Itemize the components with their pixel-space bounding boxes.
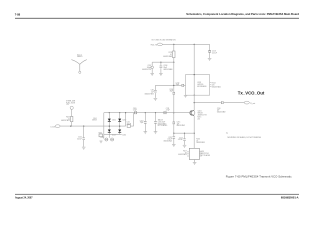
svg-text:0.01uF: 0.01uF (212, 53, 217, 55)
capacitor C210 (176, 82, 186, 86)
svg-text:L201: L201 (127, 122, 131, 124)
svg-text:C216: C216 (217, 108, 221, 110)
capacitor C202 (77, 126, 85, 147)
svg-text:D201: D201 (112, 119, 116, 121)
connector LOCK (51, 125, 61, 129)
ground (154, 98, 158, 100)
svg-text:33pF: 33pF (170, 91, 174, 93)
capacitor C216 (217, 101, 226, 113)
svg-text:Tx_VCO_Out: Tx_VCO_Out (238, 91, 265, 96)
ground (150, 74, 154, 76)
capacitor C214 (178, 133, 186, 145)
ground (154, 132, 158, 134)
capacitor C215 series (173, 122, 186, 128)
wire feedback lower (173, 124, 175, 133)
svg-text:C208: C208 (163, 65, 167, 67)
capacitor C204 (140, 113, 147, 132)
svg-text:220: 220 (212, 84, 215, 86)
junction (173, 85, 174, 86)
svg-text:0662057B74: 0662057B74 (145, 93, 154, 95)
shield box (186, 75, 210, 96)
svg-text:33pF: 33pF (163, 67, 167, 69)
wire to connector (224, 102, 244, 104)
svg-text:1K: 1K (196, 140, 198, 142)
svg-text:33pF: 33pF (176, 84, 180, 86)
wire IC ground (193, 160, 195, 163)
capacitor C213 (208, 44, 217, 58)
wire bypass row (152, 61, 174, 63)
junction (173, 133, 174, 134)
junction (70, 126, 71, 127)
svg-text:D203: D203 (112, 135, 116, 137)
junction (194, 102, 195, 103)
svg-text:C212: C212 (168, 137, 172, 139)
svg-text:1uF: 1uF (151, 91, 154, 93)
junction (173, 44, 174, 45)
wire output (194, 102, 221, 104)
junction (173, 62, 174, 63)
svg-text:D204: D204 (122, 135, 126, 137)
ground (184, 95, 187, 97)
svg-text:C206 27pF: C206 27pF (158, 122, 166, 124)
svg-text:August 24, 2007: August 24, 2007 (15, 197, 33, 200)
inductor L201 (127, 113, 134, 128)
IC U201 (178, 148, 211, 159)
ground (193, 163, 197, 165)
svg-text:STEER_LINE: STEER_LINE (66, 101, 75, 103)
junction (173, 112, 174, 113)
resistor R214 label (212, 82, 221, 88)
junction (194, 44, 195, 45)
junction (119, 112, 120, 113)
svg-text:+5V: +5V (66, 104, 69, 106)
svg-text:R214: R214 (212, 82, 216, 84)
connector TX_OUT (244, 101, 255, 105)
svg-text:5485727L01: 5485727L01 (201, 153, 210, 155)
wire collector to output (193, 95, 195, 110)
junction (109, 126, 110, 127)
pin stubs (210, 83, 212, 87)
svg-text:SHIELD: SHIELD (77, 56, 83, 58)
capacitor C212 (163, 133, 175, 144)
svg-text:0662057C01: 0662057C01 (142, 69, 151, 71)
middle rail wire (60, 125, 126, 127)
wire varactor left drop (103, 113, 105, 139)
junction (194, 133, 195, 134)
svg-text:51: 51 (68, 118, 70, 120)
svg-text:R215: R215 (197, 116, 201, 118)
junction (145, 112, 146, 113)
svg-text:D201: D201 (93, 118, 97, 120)
capacitor C211 series (164, 108, 170, 114)
wire resonator drop (125, 113, 127, 126)
svg-text:Schematics, Component Location: Schematics, Component Location Diagrams,… (186, 12, 299, 16)
svg-text:M9643: M9643 (198, 113, 203, 115)
svg-text:C209: C209 (169, 89, 173, 91)
junction (83, 126, 84, 127)
svg-text:L202: L202 (100, 137, 103, 139)
junction (160, 62, 161, 63)
svg-text:MV209: MV209 (92, 120, 97, 122)
resistor R203 (61, 116, 73, 126)
svg-text:C215: C215 (177, 122, 181, 124)
svg-text:1K: 1K (185, 152, 187, 154)
svg-text:220nH: 220nH (127, 124, 131, 126)
varactor D202 (118, 113, 126, 126)
wire collector feed (193, 44, 195, 95)
base rail wire (104, 112, 190, 114)
varactor D204 (118, 126, 126, 137)
junction (125, 112, 126, 113)
junction (155, 112, 156, 113)
net 9V3_TX (151, 39, 176, 47)
connector STEER_LINE (66, 101, 75, 117)
svg-text:U201: U201 (201, 151, 205, 153)
svg-text:C210: C210 (176, 82, 180, 84)
wire R211 to C210 node (173, 62, 175, 92)
ground (183, 145, 187, 147)
svg-text:C214: C214 (179, 137, 183, 139)
junction (194, 74, 195, 75)
svg-text:C209: C209 (133, 108, 137, 110)
svg-text:0.01uF: 0.01uF (167, 139, 172, 141)
svg-text:Figure 7-60 PML/F4E3S4 Transm: Figure 7-60 PML/F4E3S4 Transmit VCO Sche… (226, 175, 292, 179)
varactor D203 (108, 126, 116, 137)
svg-text:100pF: 100pF (147, 67, 152, 69)
capacitor C208 (160, 62, 173, 73)
transistor Q201 (190, 110, 207, 117)
svg-text:C202: C202 (78, 137, 82, 139)
svg-text:4.7pF: 4.7pF (166, 110, 170, 112)
svg-text:0.01uF: 0.01uF (178, 139, 183, 141)
svg-text:C211: C211 (166, 108, 170, 110)
svg-text:U202: U202 (197, 82, 201, 84)
IC U202 label (197, 82, 206, 88)
ground (100, 141, 103, 143)
page footer (15, 194, 299, 200)
wire emitter (193, 116, 195, 149)
capacitor C207 (142, 62, 153, 73)
page header (15, 12, 300, 19)
resistor R211 (163, 44, 175, 62)
wire emitter bypass (174, 132, 194, 134)
antenna symbol (71, 54, 86, 73)
svg-text:1pF: 1pF (177, 123, 180, 125)
svg-text:R203: R203 (66, 117, 70, 119)
wire 9V3 rail (162, 43, 209, 45)
wire feedback (173, 95, 175, 122)
svg-text:0662057M22: 0662057M22 (61, 120, 70, 122)
svg-text:C204: C204 (140, 120, 144, 122)
svg-text:C213: C213 (212, 51, 216, 53)
svg-text:7-88: 7-88 (15, 12, 21, 16)
ground (172, 145, 176, 147)
svg-text:MOUNTED ON SHIELD, DO NOT REMO: MOUNTED ON SHIELD, DO NOT REMOVE (228, 137, 262, 139)
capacitor C205 shunt (145, 85, 157, 98)
svg-text:0.5pF: 0.5pF (133, 110, 137, 112)
svg-text:C36: C36 (151, 89, 154, 91)
svg-text:LMX555: LMX555 (197, 84, 203, 86)
svg-text:R216: R216 (196, 139, 200, 141)
svg-text:VCO_2: VCO_2 (77, 54, 82, 56)
svg-text:5a: 5a (226, 132, 228, 134)
svg-text:R202: R202 (99, 132, 103, 134)
svg-text:1pF: 1pF (217, 110, 220, 112)
resistor R215 label (197, 116, 201, 120)
varactor D201 (108, 113, 116, 126)
svg-text:R211: R211 (169, 52, 173, 54)
varactor bottom rail wire (104, 133, 122, 135)
via L202 (100, 137, 108, 141)
junction (119, 126, 120, 127)
resistor R216 label (196, 139, 205, 145)
resistor R202 (99, 132, 103, 136)
svg-text:0.01uF: 0.01uF (77, 138, 82, 140)
svg-text:Q201: Q201 (198, 111, 202, 113)
svg-text:27pF: 27pF (140, 122, 144, 124)
junction (109, 112, 110, 113)
wire to buffer (155, 84, 181, 86)
svg-text:ELEC_TUNE: ELEC_TUNE (66, 102, 75, 104)
note text (226, 132, 262, 139)
ground (82, 147, 86, 149)
capacitor C206 (154, 113, 168, 132)
junction (184, 133, 185, 134)
svg-text:4.7: 4.7 (170, 54, 172, 56)
capacitor C209 series (133, 108, 137, 114)
via L203 (109, 134, 113, 141)
svg-text:C207: C207 (147, 65, 151, 67)
ground (208, 58, 212, 60)
svg-text:R_out: R_out (250, 102, 255, 105)
svg-text:9V3_TX: 9V3_TX (151, 44, 158, 46)
capacitor C209 series (169, 89, 175, 94)
svg-text:220: 220 (197, 118, 200, 120)
svg-text:6816982H01-A: 6816982H01-A (281, 196, 299, 200)
ground (159, 74, 163, 76)
svg-text:R217: R217 (183, 151, 187, 153)
ground (144, 132, 148, 134)
